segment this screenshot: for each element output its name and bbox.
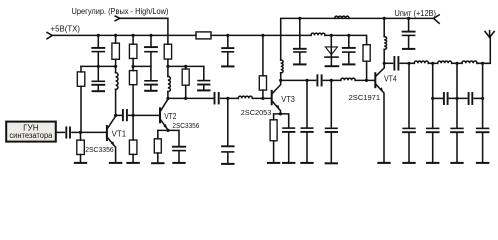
capacitor C8 node B bypass [203, 66, 205, 79]
capacitor C24 LPF bridge 1 [443, 93, 445, 104]
capacitor C7 VT2 emitter bypass [168, 130, 179, 146]
node VT4 base bias junction [365, 79, 368, 82]
capacitor C5 rail bypass upper x151 [150, 35, 152, 46]
inductor L11 LPF [462, 61, 477, 63]
wire L3 to VT3 base [252, 97, 271, 99]
capacitor C19 output coupling [393, 57, 395, 70]
inductor L6 in +12V feed line [335, 16, 349, 18]
resistor R12 VT3 base bias from rail [262, 35, 264, 75]
capacitor C23 LPF shunt x482.6 [482, 63, 484, 127]
wire +5V rail to VT4 bias resistor [325, 35, 367, 44]
wire VT4 collector to C19 [384, 62, 392, 64]
ground under R13 [268, 162, 279, 164]
svg-text:2SC1971: 2SC1971 [349, 93, 381, 102]
capacitor C14 matching shunt x307 [306, 80, 308, 127]
ground under C21 [427, 162, 438, 164]
node VT3 collector [279, 79, 282, 82]
inductor L4 VT3 collector choke to +12V [281, 60, 283, 73]
inductor L7 series matching [341, 78, 355, 80]
capacitor C18 rail bypass x349 [348, 35, 350, 47]
transistor VT4 [374, 73, 376, 87]
svg-text:VT1: VT1 [112, 130, 127, 139]
svg-text:VT3: VT3 [281, 95, 295, 104]
capacitor C12 VT3 emitter bypass [281, 114, 289, 127]
capacitor C11 x228 to ground [227, 98, 229, 145]
svg-text:VT2: VT2 [164, 112, 176, 121]
ground under C20 [403, 162, 414, 164]
ground under C11 [222, 163, 233, 165]
ГУН synthesizer box [6, 122, 56, 142]
ground under R7 [75, 162, 86, 164]
capacitor C4 interstage VT1-VT2 [122, 110, 124, 120]
node VT2 base divider junction [132, 114, 135, 117]
node dot x331 on matching line [330, 79, 333, 82]
node VT1 base [79, 131, 82, 134]
resistor R7 VT1 base to ground [80, 132, 82, 140]
wire L9-L10 [428, 62, 437, 64]
resistor R3 divider upper (from rail x133) [132, 35, 134, 44]
svg-text:Uрегулир. (Pвых - High/Low): Uрегулир. (Pвых - High/Low) [72, 7, 169, 16]
wire VT2 collector line [168, 97, 213, 99]
node dot x409 [407, 62, 410, 65]
capacitor C15 series matching [316, 75, 318, 85]
capacitor C10 interstage VT2-VT3 [214, 93, 216, 104]
node dot x115 bias wire [114, 65, 117, 68]
ground under C23 [477, 162, 488, 164]
node VT3 emitter [279, 112, 282, 115]
ground under VT4 emitter [378, 162, 389, 164]
node VT4 collector [383, 62, 386, 65]
capacitor C6 node A bypass lower x151 [145, 80, 157, 82]
resistor R1 bias feed down to VT1 base [80, 66, 82, 72]
ground under R6 [127, 162, 138, 164]
node dot x307 [305, 79, 308, 82]
antenna W1 [485, 32, 490, 38]
node dot x185.7 node B [184, 65, 187, 68]
node VT2 collector [166, 97, 169, 100]
inductor L10 LPF [438, 61, 452, 63]
capacitor C1 input coupling [65, 127, 67, 137]
resistor R2 from rail column x115 [115, 35, 117, 43]
inductor L8 VT4 collector choke [383, 18, 385, 36]
ground under C14 [301, 162, 312, 164]
resistor R6 VT2 base to ground [132, 115, 134, 140]
ground for C17 [403, 48, 414, 50]
resistor R10 VT2 emitter [158, 130, 168, 138]
wire C15 to L7 [323, 79, 340, 81]
wire node B [168, 65, 204, 67]
ground under C8 [198, 89, 209, 91]
wire bias node L [81, 65, 116, 67]
capacitor C22 LPF shunt x457 [456, 63, 458, 127]
svg-text:Uпит (+12В): Uпит (+12В) [395, 9, 437, 18]
capacitor C21 LPF shunt x432.7 [432, 63, 434, 127]
wire Uregulir line down to R4 (crosses +5V rail, no junction) [120, 18, 168, 44]
wire C24 to mid column [449, 97, 467, 99]
ground under VT1 emitter [110, 162, 121, 164]
transistor VT3 [271, 91, 273, 104]
wire node A to bypass caps [133, 65, 151, 67]
capacitor C17 +12V bypass [408, 18, 410, 30]
wire VT3 collector matching line [281, 79, 316, 81]
node VT1 collector [114, 114, 117, 117]
capacitor C3 x98 lower to ground [92, 80, 104, 82]
node dots on LPF bridge [431, 97, 434, 100]
inductor L3 series base line [238, 96, 252, 98]
wire C4 to VT2 base [129, 114, 160, 116]
capacitor C25 LPF bridge 2 [468, 93, 470, 104]
resistor R5 series in +5V rail [196, 32, 211, 39]
capacitor C9 rail bypass x228 [227, 35, 229, 47]
node dot x432.7 [431, 62, 434, 65]
wire C1 to VT1 base [72, 131, 106, 133]
capacitor C20 LPF shunt x409 [408, 63, 410, 127]
ground under C3 [93, 90, 104, 92]
resistor R13 VT3 emitter [274, 114, 281, 120]
wire +5V rail right segment [211, 34, 311, 36]
wire L7 to VT4 base [355, 79, 374, 81]
ground under C9 [222, 65, 233, 67]
ground under C22 [451, 162, 462, 164]
wire LPF bridge left segment [433, 97, 443, 99]
inductor L1 VT1 collector load [115, 66, 117, 72]
node VT3 base [261, 97, 264, 100]
transistor VT2 [159, 108, 161, 122]
svg-text:2SC3356: 2SC3356 [172, 121, 199, 130]
resistor R14 VT4 base bias [363, 45, 370, 62]
capacitor C2 from +5V rail column x98 [97, 35, 99, 47]
ground under C12 [283, 162, 294, 164]
node dot x227.8 on line [226, 97, 229, 100]
wire collector line VT1 to C4 [116, 114, 122, 116]
node dot x133 divider mid [132, 65, 135, 68]
node dots on +12V line [383, 17, 386, 20]
wire +5V rail left segment [52, 34, 196, 36]
transistor VT1 [106, 126, 108, 140]
wire +12V feed line [281, 18, 434, 60]
node dot x185.7 on collector line [184, 97, 187, 100]
wire C19 to LPF [400, 62, 414, 64]
net +5V(TX) input arrow [47, 32, 52, 38]
inductor L2 VT2 collector load [167, 66, 169, 76]
wire L11 to antenna riser [477, 37, 490, 63]
capacitor C16 matching shunt x331 [330, 80, 332, 127]
wire VCO output to coupling cap [56, 131, 64, 133]
wire C25 to last column [474, 97, 483, 99]
svg-text:VT4: VT4 [384, 75, 397, 84]
svg-text:2SC2053: 2SC2053 [241, 108, 271, 117]
wire L10-L11 [452, 62, 462, 64]
resistor R8 divider middle [132, 66, 134, 70]
net Upit +12V input arrow [434, 15, 440, 23]
node dots on +5V rail [97, 34, 100, 37]
svg-text:2SC3356: 2SC3356 [85, 145, 114, 154]
resistor R4 fed by Uregulir (node B top) [164, 44, 171, 59]
svg-text:+5В(TX): +5В(TX) [51, 25, 81, 34]
node dot x457 [455, 62, 458, 65]
ground under C13 [294, 63, 305, 65]
ground under C6 [145, 90, 156, 92]
ground under R10 [152, 162, 163, 164]
node dot x168 node B [166, 65, 169, 68]
ground under C7 [173, 162, 184, 164]
zener diode VD1 [330, 35, 332, 57]
node dot x482.6 [481, 62, 484, 65]
inductor L9 LPF [414, 61, 428, 63]
wire C10 to L3 [221, 97, 239, 99]
ground under VD1 [326, 65, 339, 67]
node dot x98 on bias wire [97, 65, 100, 68]
ground under C16 [326, 162, 337, 164]
ground under C18 [343, 63, 354, 65]
resistor R9 damping across L2 [185, 66, 187, 69]
net Uregulir control input arrow [115, 16, 120, 21]
node VT2 emitter [166, 129, 169, 132]
inductor L5 in +5V rail [311, 33, 325, 35]
capacitor C13 +12V line bypass x300 [298, 17, 301, 20]
svg-text:синтезатора: синтезатора [9, 131, 53, 140]
